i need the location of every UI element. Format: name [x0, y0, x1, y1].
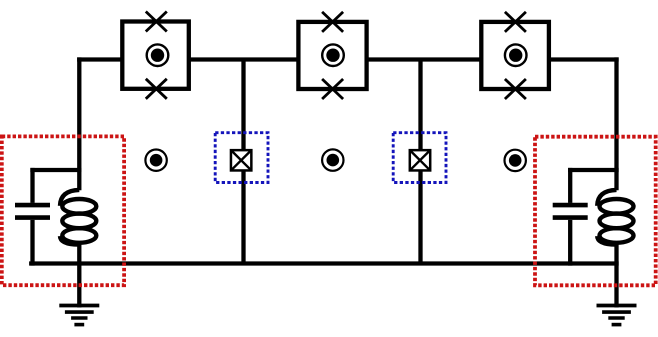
red dashed box: resonator 1: [2, 136, 124, 285]
ground (left): [59, 306, 99, 325]
wire: right inductor-to-ground segment: [614, 244, 618, 308]
Josephson junction X (S3 top): [505, 12, 526, 32]
capacitor C1: [15, 168, 50, 266]
SQUID loop S2: [298, 22, 366, 89]
wire: top horizontal rail: [77, 57, 619, 61]
blue dashed box: junction J1: [215, 133, 268, 183]
inductor L2: [597, 190, 633, 245]
Josephson junction X (S1 top): [146, 12, 167, 32]
wire: right vertical riser (top rail to inductor L2): [614, 57, 618, 190]
flux symbol node 1 (below S1): [145, 150, 166, 171]
blue dashed box: junction J2: [393, 133, 446, 183]
wire: vertical branch to junction J1: [241, 60, 245, 264]
inductor L1: [60, 190, 96, 245]
wire: bottom ground bus: [29, 261, 619, 265]
wire: left vertical riser (top rail to inductor L1): [77, 57, 81, 190]
Josephson junction X (S2 bottom): [322, 79, 343, 99]
wire: left inductor-to-ground segment: [77, 244, 81, 308]
Josephson junction X (S1 bottom): [146, 79, 167, 99]
junction J2 (boxed X symbol): [410, 150, 430, 170]
Josephson junction X (S2 top): [322, 12, 343, 32]
flux symbol in S3: [505, 44, 527, 66]
flux symbol node 3 (below S3): [505, 150, 526, 171]
red dashed box: resonator 2: [535, 137, 656, 286]
flux symbol node 2 (below S2): [322, 149, 343, 170]
flux symbol in S1: [147, 44, 169, 66]
wire: resonator 2 top branch: [568, 168, 619, 172]
junction J1 (boxed X symbol): [231, 150, 251, 170]
Josephson junction X (S3 bottom): [505, 79, 526, 99]
wire: resonator 1 top branch: [30, 168, 81, 172]
capacitor C2: [553, 168, 588, 266]
SQUID loop S3: [481, 22, 549, 89]
flux symbol in S2: [322, 44, 344, 66]
wire: vertical branch to junction J2: [418, 60, 422, 264]
ground (right): [597, 306, 637, 325]
SQUID loop S1: [122, 22, 189, 89]
